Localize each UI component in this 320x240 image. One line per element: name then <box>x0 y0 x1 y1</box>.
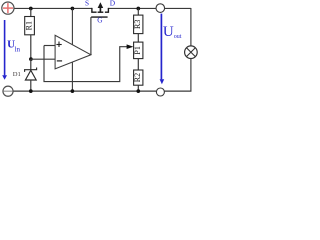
node A (top rail / R1) <box>29 7 33 11</box>
resistor R1 <box>24 17 34 35</box>
node B (reference node R1/D1) <box>29 57 33 61</box>
wire reference node to op-amp inverting input <box>31 58 55 60</box>
wire bottom rail right segment <box>164 90 191 92</box>
wire right edge vertical upper <box>190 8 192 46</box>
wire R1 top lead <box>30 8 32 16</box>
terminal output - <box>156 88 164 96</box>
wire bottom rail left segment <box>13 90 156 92</box>
wire feedback: non-inverting input to P1 wiper <box>44 46 129 82</box>
svg-text:out: out <box>174 34 182 40</box>
svg-text:ln: ln <box>15 45 21 53</box>
svg-text:P1: P1 <box>133 46 142 54</box>
wire op-amp positive supply <box>71 8 73 46</box>
transistor Q1 (pass MOSFET) <box>91 2 108 17</box>
node G2 (R2 / bottom rail) <box>136 89 140 93</box>
wire P1-R2 lead <box>137 59 139 70</box>
lamp (load) <box>185 46 198 59</box>
resistor R2 <box>133 70 143 85</box>
svg-text:D: D <box>110 0 116 8</box>
node F (top rail / R3) <box>136 7 140 11</box>
wire top rail right segment <box>165 7 191 9</box>
terminal + (input positive) <box>2 2 14 14</box>
wire R3-P1 lead <box>137 34 139 43</box>
potentiometer P1 <box>133 42 143 59</box>
wire gate lead (op-amp output up to gate bar) <box>90 17 92 55</box>
wire top rail middle segment <box>108 7 156 9</box>
wire non-inverting input stub <box>44 45 55 47</box>
svg-text:S: S <box>85 0 89 7</box>
wire D1 bottom lead <box>30 80 32 91</box>
node C (D1 / bottom rail) <box>29 89 33 93</box>
svg-text:R1: R1 <box>24 21 33 30</box>
op-amp U1 <box>55 35 91 69</box>
source step <box>92 8 97 12</box>
wire op-amp negative supply <box>71 61 73 91</box>
wiper arrow into P1 <box>127 44 134 49</box>
node D (top rail / op-amp V+) <box>71 7 75 11</box>
middle channel contact <box>98 11 104 13</box>
terminal output + <box>156 4 165 13</box>
terminal - (input negative) <box>3 86 13 96</box>
arrow Uout (blue, down) <box>160 14 165 85</box>
gate bar <box>91 16 107 18</box>
wire R1 bottom lead <box>30 35 32 59</box>
svg-text:D1: D1 <box>13 71 21 78</box>
svg-text:R3: R3 <box>133 20 142 29</box>
wire R2 bottom lead <box>137 85 139 91</box>
svg-text:R2: R2 <box>133 73 142 82</box>
body arrow <box>99 7 101 13</box>
wire top rail left segment <box>14 7 92 9</box>
wire R3 top lead <box>137 8 139 15</box>
resistor R3 <box>133 15 143 33</box>
diode D1 (zener) <box>25 68 37 81</box>
wire D1 top lead <box>30 59 32 70</box>
node E (op-amp V- / bottom rail) <box>71 89 75 93</box>
drain step <box>105 8 109 12</box>
arrow Uin (blue, down) <box>2 20 7 80</box>
wire right edge vertical lower <box>190 58 192 91</box>
svg-text:G: G <box>97 17 102 25</box>
svg-text:U: U <box>163 24 174 40</box>
